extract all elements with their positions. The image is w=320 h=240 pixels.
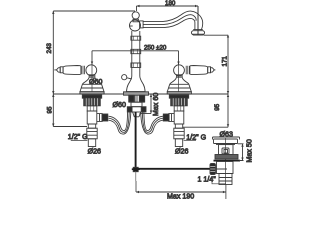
drain body upper xyxy=(219,145,234,155)
dimension 95 right bottom tick xyxy=(183,126,229,128)
Max 60 dimension line xyxy=(150,94,152,114)
leader 1/2G left xyxy=(71,140,88,142)
Max 60 arrows xyxy=(150,94,152,114)
pop-up clevis screw xyxy=(132,168,140,170)
dimension 180 arrows xyxy=(137,5,199,7)
svg-text:Ø60: Ø60 xyxy=(113,101,126,109)
Max 60 bottom tick xyxy=(140,113,152,115)
Max 190 arrows xyxy=(136,191,226,193)
dimension 250 right tick xyxy=(178,51,180,65)
svg-text:1/2" G: 1/2" G xyxy=(68,133,88,141)
left valve fitting lines xyxy=(87,132,97,136)
spout column body xyxy=(132,31,140,76)
pop-up rod lower thin xyxy=(135,172,137,181)
drain body lower xyxy=(217,162,234,174)
deck line xyxy=(53,93,228,95)
right valve locknut hatch xyxy=(173,98,184,106)
svg-text:Max 50: Max 50 xyxy=(246,139,254,162)
drain locknut xyxy=(214,160,241,162)
Max 190 right extension xyxy=(225,185,227,200)
left valve tee body xyxy=(87,111,97,124)
right valve tee body xyxy=(174,111,184,124)
right handle collar ribs xyxy=(186,66,189,75)
spout bottom curve xyxy=(143,18,195,29)
dimension 180 right extension xyxy=(197,6,199,35)
spout column ring hatches xyxy=(134,36,138,67)
left valve shank xyxy=(87,106,97,111)
drain O63 end ticks xyxy=(213,137,240,140)
dimension right arrows xyxy=(227,35,229,128)
svg-text:243: 243 xyxy=(46,43,53,54)
svg-text:180: 180 xyxy=(165,0,176,7)
svg-text:95: 95 xyxy=(214,103,221,110)
drain rod nut xyxy=(210,164,216,175)
left valve bell shoulder xyxy=(82,83,101,85)
right valve fitting lines xyxy=(174,132,184,136)
left handle ball xyxy=(86,65,97,76)
pop-up rod vertical xyxy=(135,112,137,167)
right hose xyxy=(144,112,163,131)
dimension 171 top tick to spout outlet xyxy=(204,34,229,36)
dimension 250+-20 line xyxy=(92,50,179,52)
svg-text:Ø26: Ø26 xyxy=(175,148,188,156)
right valve skirt ring xyxy=(169,87,191,89)
column nut right below deck xyxy=(139,95,144,102)
right valve skirt xyxy=(167,84,191,91)
svg-text:95: 95 xyxy=(47,106,54,113)
column tee xyxy=(131,102,142,107)
svg-text:Ø63: Ø63 xyxy=(220,130,233,138)
svg-text:Max 60: Max 60 xyxy=(152,93,160,116)
svg-text:250 ±20: 250 ±20 xyxy=(144,45,167,52)
right valve outlet xyxy=(169,114,174,122)
svg-text:Ø26: Ø26 xyxy=(88,148,101,156)
drain tailpiece lines xyxy=(219,178,232,182)
drain rod nut stripes xyxy=(210,167,215,172)
dimension 95 left arrows xyxy=(52,94,54,127)
right handle tip cap xyxy=(211,68,215,73)
svg-text:Max 190: Max 190 xyxy=(167,192,194,200)
right handle ball xyxy=(174,65,185,76)
drain flange xyxy=(214,139,238,144)
left hose xyxy=(109,112,128,131)
spout column ball joint xyxy=(130,20,141,31)
dimension 180 line xyxy=(137,5,199,7)
drain rod into body xyxy=(210,168,227,170)
spout middle curve xyxy=(143,15,196,25)
drain centerline xyxy=(224,138,226,185)
spout ball joint left tick xyxy=(129,25,133,27)
drain gasket xyxy=(215,155,238,160)
pop-up knob stem xyxy=(127,78,132,79)
left valve outlet xyxy=(97,114,102,122)
left valve locknut xyxy=(84,98,101,106)
dimension 243 extension top xyxy=(53,10,135,12)
column hose nut right xyxy=(141,107,146,112)
right valve pipe xyxy=(175,124,182,128)
spout connector collar xyxy=(140,21,144,28)
right valve washer below deck xyxy=(169,95,188,98)
left handle grip xyxy=(63,66,81,75)
left valve base plate xyxy=(80,92,104,95)
right valve shank xyxy=(174,106,184,111)
pop-up knob xyxy=(122,75,127,80)
right valve outlet nut xyxy=(163,114,169,121)
Max 190 dimension line xyxy=(136,191,226,193)
left valve centerline xyxy=(91,65,93,95)
left valve outlet nut xyxy=(102,114,108,121)
left handle collar ribs xyxy=(81,66,84,75)
spout top curve xyxy=(143,11,203,30)
left valve bell flare xyxy=(82,78,101,85)
left handle ferrule xyxy=(60,67,63,73)
right handle ferrule xyxy=(208,67,211,73)
drain flange step xyxy=(216,144,235,146)
dimension 250 arrows xyxy=(91,62,180,65)
left valve pipe xyxy=(88,124,95,128)
dimension 243 arrows xyxy=(52,11,54,94)
dimension 250 left tick xyxy=(91,51,93,65)
left handle tip stud xyxy=(54,69,56,71)
right valve pipe end xyxy=(175,139,182,147)
right valve fitting 1/2G xyxy=(174,128,184,139)
leader 1 1/4 xyxy=(212,180,226,184)
left valve skirt ring xyxy=(81,87,103,89)
spout column escutcheon xyxy=(127,76,146,92)
spout outlet bell xyxy=(191,30,204,35)
spout column finial ring xyxy=(133,19,138,22)
spout column escutcheon base xyxy=(124,92,149,95)
left valve pipe end xyxy=(88,139,95,147)
leader 1/2G right xyxy=(184,140,196,142)
left valve washer below deck xyxy=(82,95,101,98)
svg-text:171: 171 xyxy=(221,56,228,67)
Max 50 arrows xyxy=(241,144,243,161)
svg-text:1 1/4": 1 1/4" xyxy=(198,176,217,184)
spout column rings xyxy=(131,36,141,67)
pop-up horizontal rod xyxy=(138,168,210,170)
right handle tip stud xyxy=(214,69,215,71)
drain body inner square xyxy=(222,148,229,154)
rod guide funnel xyxy=(133,112,141,117)
drain body inner rect xyxy=(224,150,228,154)
dimension 171/95 right vertical line xyxy=(227,35,229,127)
right handle grip xyxy=(190,66,208,75)
left valve neck ribs xyxy=(89,75,95,78)
right valve locknut xyxy=(171,98,188,106)
Max 50 ticks xyxy=(238,144,244,161)
right valve bell shoulder xyxy=(170,83,189,85)
left valve fitting 1/2G xyxy=(87,128,97,139)
column thread between nuts xyxy=(129,95,145,102)
right valve base plate xyxy=(167,92,191,95)
dimension 180 left tick xyxy=(136,6,138,11)
spout outlet bell inner line xyxy=(192,33,204,35)
left valve skirt xyxy=(80,84,104,91)
svg-text:1/2" G: 1/2" G xyxy=(186,133,206,141)
Max 190 left extension xyxy=(135,181,137,192)
right valve neck ribs xyxy=(176,75,182,78)
pop-up clevis xyxy=(133,167,138,171)
left handle tip cap xyxy=(56,68,60,73)
column tee center xyxy=(132,107,141,112)
dimension 95 left line xyxy=(52,94,54,127)
column nut left below deck xyxy=(129,95,134,102)
right valve centerline xyxy=(178,65,180,95)
spout column finial ball xyxy=(132,12,139,19)
left valve locknut hatch xyxy=(86,98,97,106)
drain dimension O63 line xyxy=(213,136,240,138)
column hose nut left xyxy=(127,107,132,112)
dimension 95 left tick xyxy=(53,126,87,128)
drain tailpiece xyxy=(219,174,232,185)
right valve bell flare xyxy=(170,78,189,85)
Max 50 dimension line xyxy=(242,144,244,161)
svg-text:Ø60: Ø60 xyxy=(89,78,102,86)
dimension 243 line xyxy=(52,11,54,94)
